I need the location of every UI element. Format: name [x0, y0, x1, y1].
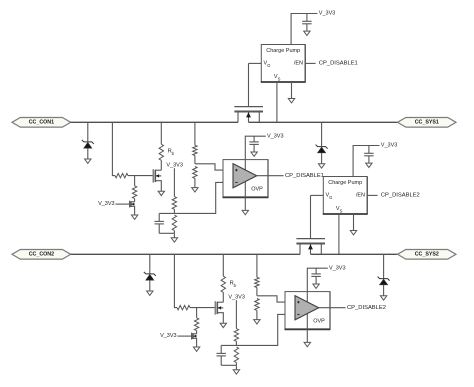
transistor Q5 drain stub — [217, 301, 223, 303]
ground — [193, 347, 199, 351]
ground — [318, 164, 324, 168]
wire OVP positive input inside block — [233, 169, 236, 171]
resistor R10 Rb from bus to Q5 drain — [222, 254, 224, 276]
resistor R9 gate pulldown through Q6 — [196, 308, 198, 318]
resistor R8 series gate — [177, 305, 190, 309]
resistor R11 divider upper from bus — [256, 254, 258, 277]
comparator U4 triangle — [295, 296, 319, 320]
wire ground pin of U3 — [353, 214, 355, 230]
wire gate of Q1 to charge pump VG — [248, 63, 250, 106]
svg-text:V_3V3: V_3V3 — [160, 333, 177, 339]
svg-text:CP_DISABLE2: CP_DISABLE2 — [381, 193, 420, 199]
transistor Q3 body stub and arrow — [131, 203, 135, 205]
wire OVP positive input inside block — [295, 301, 298, 303]
wire divider tap to OVP positive input — [195, 164, 234, 170]
TVS diode D3 on CON bus — [149, 254, 151, 273]
resistor R4 divider upper from bus — [194, 122, 196, 145]
transistor Q5 body stub and arrow — [217, 307, 223, 309]
capacitor C1 across R7 — [158, 213, 160, 221]
comparator U2 OVP body — [223, 160, 268, 198]
wire bus CC_CON2 to pass FET drain — [71, 253, 300, 255]
svg-text:CP_DISABLE1: CP_DISABLE1 — [285, 173, 324, 179]
ground — [350, 231, 356, 235]
svg-text:VG: VG — [264, 61, 271, 68]
wire OVP supply rail through block — [306, 292, 308, 330]
ground — [158, 191, 164, 195]
port CC_CON2 — [12, 250, 71, 260]
transistor Q4 channel bar — [296, 243, 325, 245]
transistor Q4 drain stub — [299, 244, 301, 255]
ground — [254, 320, 260, 324]
svg-text:CP_DISABLE2: CP_DISABLE2 — [347, 305, 386, 311]
resistor R2 gate pulldown through Q3 — [134, 176, 136, 186]
wire /EN pin of U3 — [367, 194, 377, 196]
wire VG pin of U3 — [311, 194, 324, 196]
comparator U4 OVP body — [285, 292, 330, 330]
transistor Q2 channel bar — [154, 170, 156, 182]
ground — [366, 163, 372, 167]
resistor R14 reference divider lower — [234, 347, 238, 363]
transistor Q3 channel bar — [130, 201, 132, 207]
wire VS pin of U3 to bus — [338, 214, 340, 254]
wire bus tap to gate resistor R1 — [112, 122, 115, 175]
wire gate of Q6 — [178, 335, 192, 337]
ground — [380, 296, 386, 300]
svg-text:V_3V3: V_3V3 — [267, 133, 284, 139]
port CC_SYS1 — [398, 118, 457, 128]
ground — [171, 238, 177, 242]
port CC_CON1 — [12, 118, 71, 128]
ground — [304, 342, 310, 346]
wire bus CC_CON1 to pass FET drain — [71, 121, 238, 123]
transistor Q2 source stub — [155, 181, 161, 191]
wire VG pin of U1 — [249, 62, 262, 64]
svg-text:VG: VG — [326, 193, 333, 200]
comparator U2 triangle — [233, 164, 257, 188]
svg-text:Rb: Rb — [230, 281, 237, 288]
svg-text:V_3V3: V_3V3 — [381, 143, 398, 149]
svg-text:Charge Pump: Charge Pump — [266, 48, 300, 54]
svg-text:V_3V3: V_3V3 — [228, 295, 245, 301]
ground — [251, 152, 257, 156]
resistor R13 reference divider upper — [235, 300, 237, 328]
wire R14 bottom to ground — [235, 365, 237, 369]
wire R7 bottom to ground — [173, 233, 175, 237]
ground — [220, 323, 226, 327]
svg-text:VS: VS — [274, 74, 281, 81]
wire ground pin of U1 — [291, 82, 293, 98]
svg-text:CC_SYS2: CC_SYS2 — [415, 252, 439, 258]
transistor Q3 source stub — [131, 206, 135, 215]
ground — [192, 188, 198, 192]
ground — [288, 99, 294, 103]
wire R8 to gate of Q5 with tap node — [190, 307, 215, 309]
wire VS pin of U1 to bus — [276, 82, 278, 122]
transistor Q5 channel bar — [216, 302, 218, 314]
transistor Q2 drain stub — [155, 169, 161, 171]
transistor Q6 drain stub — [193, 333, 197, 335]
svg-text:V_3V3: V_3V3 — [329, 265, 346, 271]
comparator U4 minus input mark — [297, 313, 299, 315]
svg-text:V_3V3: V_3V3 — [98, 201, 115, 207]
resistor R1 series gate — [115, 173, 128, 177]
transistor Q3 drain stub — [131, 201, 135, 203]
port CC_SYS2 — [398, 250, 457, 260]
transistor Q2 NMOS gate bar — [152, 169, 154, 182]
transistor Q6 channel bar — [192, 333, 194, 339]
transistor Q1 source stub — [258, 112, 260, 123]
wire R1 to gate of Q2 with tap node — [128, 175, 153, 177]
ground — [131, 215, 137, 219]
TVS diode D2 on SYS bus — [321, 122, 323, 146]
wire gate of Q4 to charge pump VG — [310, 195, 312, 238]
capacitor C2 OVP supply decoupling — [253, 136, 255, 142]
transistor Q4 body stub and arrow — [310, 244, 312, 255]
svg-text:V_3V3: V_3V3 — [166, 163, 183, 169]
wire OVP supply to V_3V3 — [245, 136, 265, 159]
comparator U2 plus input mark — [235, 169, 237, 171]
wire supply pin of U3 to V_3V3 — [353, 146, 379, 177]
TVS diode D1 on CON bus — [87, 122, 89, 141]
wire gate of Q3 — [116, 203, 130, 205]
transistor Q1 body stub and arrow — [248, 112, 250, 123]
capacitor C3 charge pump supply decoupling — [306, 14, 308, 22]
resistor R12 divider lower to ground — [255, 299, 259, 311]
capacitor C6 charge pump supply decoupling — [368, 146, 370, 154]
ground — [85, 159, 91, 163]
transistor Q3 small NMOS gate bar — [129, 201, 131, 208]
wire supply pin of U1 to V_3V3 — [291, 14, 317, 45]
wire OVP supply to V_3V3 — [307, 268, 328, 291]
svg-text:CC_CON1: CC_CON1 — [29, 120, 54, 126]
comparator U2 minus input mark — [235, 181, 237, 183]
ground — [242, 210, 248, 214]
svg-text:CC_SYS1: CC_SYS1 — [415, 120, 439, 126]
capacitor C4 across R14 — [220, 345, 222, 353]
wire bus pass FET source to CC_SYS2 — [311, 253, 398, 255]
transistor Q6 body stub and arrow — [193, 335, 197, 337]
svg-text:Charge Pump: Charge Pump — [328, 180, 362, 186]
wire bus pass FET source to CC_SYS1 — [249, 121, 398, 123]
charge pump U1 body — [261, 45, 305, 83]
transistor Q1 drain stub — [237, 112, 239, 123]
wire OVP output — [319, 307, 346, 309]
transistor Q5 source stub — [217, 313, 223, 323]
transistor Q5 NMOS gate bar — [214, 301, 216, 314]
transistor Q4 pass NMOS gate bar — [296, 238, 325, 240]
svg-text:CP_DISABLE1: CP_DISABLE1 — [319, 61, 358, 67]
svg-text:VS: VS — [336, 206, 343, 213]
wire bus tap to gate resistor R8 — [174, 254, 177, 307]
transistor Q4 source stub — [320, 244, 322, 255]
wire OVP ground pin — [244, 197, 246, 210]
wire reference tap to OVP negative input — [159, 182, 233, 213]
transistor Q1 pass NMOS gate bar — [234, 106, 263, 108]
resistor R6 reference divider upper — [173, 168, 175, 196]
ground — [304, 31, 310, 35]
comparator U4 plus input mark — [297, 301, 299, 303]
svg-text:V_3V3: V_3V3 — [319, 11, 336, 17]
transistor Q6 small NMOS gate bar — [191, 333, 193, 340]
wire /EN pin of U1 — [305, 62, 315, 64]
TVS diode D4 on SYS bus — [383, 254, 385, 278]
wire OVP supply rail through block — [244, 160, 246, 198]
wire OVP negative input inside block — [295, 313, 298, 315]
wire OVP output — [257, 175, 284, 177]
transistor Q6 source stub — [193, 338, 197, 347]
ground — [313, 284, 319, 288]
capacitor C5 OVP supply decoupling — [315, 268, 317, 274]
wire OVP negative input inside block — [233, 181, 236, 183]
wire reference tap to OVP negative input — [221, 314, 295, 345]
resistor R5 divider lower to ground — [193, 167, 197, 179]
wire OVP ground pin — [306, 329, 308, 342]
ground — [147, 291, 153, 295]
svg-text:Rb: Rb — [168, 149, 175, 156]
transistor Q1 channel bar — [234, 111, 263, 113]
resistor R3 Rb from bus to Q2 drain — [160, 122, 162, 144]
svg-text:/EN: /EN — [356, 193, 365, 199]
transistor Q2 body stub and arrow — [155, 175, 161, 177]
charge pump U3 body — [323, 177, 367, 215]
ground — [233, 370, 239, 374]
svg-text:OVP: OVP — [313, 319, 325, 325]
resistor R7 reference divider lower — [172, 215, 176, 231]
svg-text:CC_CON2: CC_CON2 — [29, 252, 54, 258]
svg-text:OVP: OVP — [251, 187, 263, 193]
svg-text:/EN: /EN — [294, 61, 303, 67]
wire divider tap to OVP positive input — [257, 296, 296, 302]
